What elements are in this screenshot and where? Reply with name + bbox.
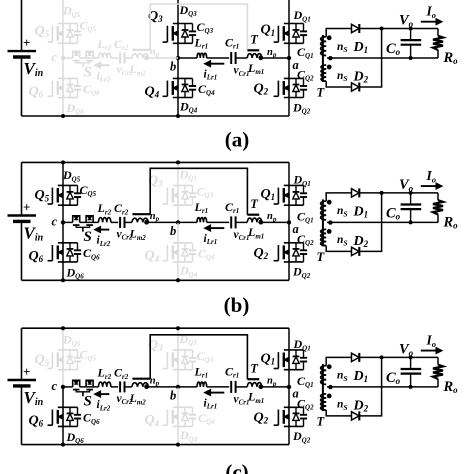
wire Lm2 to node b: [148, 221, 178, 223]
label nS upper: [337, 41, 348, 54]
label Lr2: [97, 37, 112, 52]
switch S (bidirectional): [73, 216, 93, 232]
transformer T1 core: [247, 378, 259, 380]
MOSFET Q6 with body diode DQ6 and capacitor CQ6: [48, 243, 82, 262]
label iLr1: [204, 233, 218, 246]
label DQ4: [179, 428, 198, 443]
label Vo: [399, 13, 414, 29]
diode D2: [352, 247, 360, 256]
capacitor Cr1: [231, 52, 235, 64]
wire left leg upper: [62, 162, 64, 185]
label Q5: [35, 353, 50, 368]
label DQ3: [179, 167, 198, 182]
wire to load: [437, 357, 439, 387]
wire node c to S: [63, 386, 73, 388]
wire S to Lr2: [80, 221, 99, 223]
label + polarity: [23, 364, 30, 379]
label Vo: [399, 342, 414, 358]
MOSFET Q1 with body diode DQ1 and capacitor CQ1: [274, 350, 308, 370]
label Vin: [24, 388, 44, 408]
node a: [287, 220, 291, 224]
MOSFET Q4 with body diode DQ4 and capacitor CQ4: [163, 243, 197, 262]
label Q1: [261, 187, 276, 202]
wire Q3 source to node b: [177, 205, 179, 222]
wire D2 cathode riser: [359, 29, 382, 88]
label DQ5: [62, 168, 81, 183]
label CQ5: [80, 18, 97, 33]
junction bottom rail mid leg: [176, 114, 180, 118]
label Cr2: [114, 37, 129, 52]
node Co bottom: [409, 56, 413, 60]
label S: [84, 229, 92, 245]
wire Lr2 to Cr2: [111, 57, 118, 59]
label T primary: [250, 197, 259, 211]
label DQ1: [293, 337, 311, 352]
label D2: [353, 69, 369, 84]
junction top rail mid leg: [176, 160, 180, 164]
wire Cr1 to T: [236, 221, 248, 223]
label nS upper: [337, 370, 348, 383]
secondary winding nS lower: [321, 394, 332, 411]
label np of T2: [150, 375, 160, 387]
label T primary: [250, 362, 259, 376]
label Io: [426, 333, 437, 349]
wire Lr1 to Cr1: [207, 221, 230, 223]
label iLr2: [97, 70, 111, 83]
label DQ4: [179, 99, 198, 114]
wire node a to Q2: [288, 58, 290, 78]
label caption (a): [225, 127, 250, 151]
label Ro: [443, 379, 459, 395]
resistor Ro: [433, 365, 443, 379]
label Q1: [261, 352, 276, 367]
label CQ2: [297, 232, 314, 247]
capacitor Cr2: [120, 217, 124, 228]
label nS lower: [337, 399, 348, 412]
inductor Lr1: [197, 218, 207, 223]
wire right leg upper: [288, 328, 290, 350]
switch S (bidirectional): [73, 51, 93, 67]
arrow iLr1: [205, 390, 225, 396]
wire right leg upper: [288, 0, 290, 24]
label Q4: [145, 84, 160, 99]
wire top rail: [22, 327, 290, 329]
wire Q1 source to node a: [288, 43, 290, 58]
label Cr1: [225, 200, 239, 215]
label np of T1: [267, 47, 277, 59]
MOSFET Q6 with body diode DQ6 and capacitor CQ6: [48, 407, 82, 426]
node b: [176, 385, 180, 389]
transformer T secondary core: [322, 199, 324, 246]
wire to load: [437, 193, 439, 223]
label Ro: [443, 50, 459, 66]
node Co top: [409, 191, 413, 195]
arrow Io: [421, 348, 442, 354]
wire node c to S: [63, 57, 73, 59]
label Q6: [29, 413, 44, 428]
svg-text:b: b: [170, 60, 176, 74]
wire secondary bottom lead: [326, 410, 352, 416]
label Vo: [399, 177, 414, 193]
wire node c to Q6: [62, 58, 64, 78]
junction bottom rail mid leg: [176, 278, 180, 282]
label b: [170, 60, 176, 74]
label D1: [353, 369, 369, 384]
svg-text:(c): (c): [225, 460, 248, 474]
label S: [84, 394, 92, 410]
secondary winding nS upper: [321, 35, 332, 55]
wire secondary bottom lead: [326, 81, 352, 87]
MOSFET Q5 with body diode DQ5 and capacitor CQ5: [48, 185, 82, 205]
node Co bottom: [409, 220, 413, 224]
label c: [52, 379, 58, 393]
wire Q6 source to bottom rail: [62, 262, 64, 280]
capacitor Co: [401, 357, 422, 387]
MOSFET Q4 with body diode DQ4 and capacitor CQ4: [163, 78, 197, 97]
transformer T1 core: [247, 49, 259, 51]
MOSFET Q1 with body diode DQ1 and capacitor CQ1: [274, 24, 308, 44]
label Q5: [35, 188, 50, 203]
label vCr1: [234, 229, 250, 242]
label b: [170, 389, 176, 403]
label nS upper: [337, 205, 348, 218]
label CQ3: [197, 20, 214, 35]
diode D1: [352, 24, 360, 33]
winding dot np2: [144, 220, 149, 225]
capacitor Cr1: [231, 216, 235, 228]
label Lr1: [194, 36, 209, 51]
svg-text:c: c: [52, 50, 58, 64]
resistor Ro: [433, 36, 443, 50]
wire D1 cathode to output +: [359, 192, 438, 194]
MOSFET Q5 with body diode DQ5 and capacitor CQ5: [48, 350, 82, 370]
label Io: [426, 168, 437, 184]
wire bottom rail: [22, 279, 290, 281]
label nS lower: [337, 234, 348, 247]
inductor Lr1: [197, 382, 207, 387]
secondary winding nS lower: [321, 65, 332, 82]
secondary winding nS lower: [321, 229, 332, 246]
resistor Ro: [433, 200, 443, 214]
svg-text:c: c: [52, 379, 58, 393]
label DQ5: [62, 333, 81, 348]
transformer T1 core: [247, 214, 259, 216]
wire Cr1 to T: [236, 386, 248, 388]
MOSFET Q3 with body diode DQ3 and capacitor CQ3: [163, 185, 197, 205]
label Lm1: [247, 390, 264, 405]
battery Vin: [8, 0, 37, 116]
label CQ3: [197, 349, 214, 364]
wire Cr2 to Lm2: [125, 221, 133, 223]
wire left leg upper: [62, 328, 64, 350]
label vCr1: [234, 65, 250, 78]
svg-text:+: +: [23, 35, 30, 50]
svg-text:T: T: [250, 362, 259, 376]
wire Q3 source to node b: [177, 43, 179, 58]
diode D2: [352, 411, 360, 420]
label DQ2: [292, 100, 311, 115]
arrow iLr2: [95, 62, 110, 68]
svg-text:(a): (a): [225, 127, 250, 151]
inductor Lr2: [99, 218, 111, 223]
wire Lm2 to node b: [148, 386, 178, 388]
label DQ6: [66, 430, 85, 445]
inductor Lm2 primary np: [132, 54, 148, 58]
label S: [84, 65, 92, 81]
label CQ1: [297, 374, 314, 389]
svg-text:T: T: [250, 33, 259, 47]
label Q2: [254, 81, 269, 96]
junction bottom rail mid leg: [176, 443, 180, 447]
inductor Lr2: [99, 382, 111, 387]
label Q3: [148, 9, 163, 24]
svg-text:c: c: [52, 214, 58, 228]
MOSFET Q3 with body diode DQ3 and capacitor CQ3: [163, 24, 197, 44]
wire Q1 source to node a: [288, 370, 290, 387]
arrow iLr2: [95, 227, 110, 233]
wire S to Lr2: [80, 386, 99, 388]
wire node c to Q6: [62, 387, 64, 407]
wire Lm1 to node a: [262, 386, 289, 388]
wire bypass loop: [150, 335, 247, 379]
wire Q6 source to bottom rail: [62, 426, 64, 444]
wire Q5 source to node c: [62, 370, 64, 387]
MOSFET Q4 with body diode DQ4 and capacitor CQ4: [163, 407, 197, 426]
label Ro: [443, 214, 459, 230]
winding dot np1: [258, 384, 263, 389]
wire D2 cathode riser: [359, 193, 382, 252]
label c: [52, 50, 58, 64]
wire Q2 source to bottom rail: [288, 426, 290, 444]
arrow Io: [421, 183, 442, 189]
label a: [293, 222, 299, 236]
label Cr2: [114, 201, 129, 216]
capacitor Cr2: [120, 381, 124, 392]
inductor Lm1 primary np: [247, 218, 261, 222]
label Lr2: [97, 366, 112, 381]
label Q6: [29, 249, 44, 264]
label Lr1: [194, 200, 209, 215]
label Lm2: [129, 227, 147, 242]
winding dot np2: [144, 55, 149, 60]
wire right leg upper: [288, 162, 290, 185]
label DQ6: [66, 265, 85, 280]
wire node b to Lr1: [178, 57, 197, 59]
label DQ1: [293, 173, 311, 188]
node c: [61, 385, 65, 389]
label CQ6: [83, 82, 100, 97]
wire node b to Lr1: [178, 386, 197, 388]
node c: [61, 56, 65, 60]
svg-text:+: +: [23, 364, 30, 379]
label Q3: [148, 173, 163, 188]
label CQ3: [197, 184, 214, 199]
label DQ6: [66, 101, 85, 116]
inductor Lr2: [99, 53, 111, 58]
junction top rail mid leg: [176, 326, 180, 330]
label iLr1: [204, 397, 218, 410]
label caption (c): [225, 460, 248, 474]
wire left leg upper: [62, 0, 64, 24]
junction bottom rail left leg: [61, 114, 65, 118]
diode D2: [352, 83, 360, 92]
node a: [287, 56, 291, 60]
label Cr1: [225, 36, 239, 51]
node Co top: [409, 27, 413, 31]
MOSFET Q5 with body diode DQ5 and capacitor CQ5: [48, 24, 82, 44]
label CQ2: [297, 67, 314, 82]
label Co: [386, 370, 401, 386]
battery Vin: [8, 328, 37, 444]
wire Lm1 to node a: [262, 221, 289, 223]
label D2: [353, 234, 369, 249]
label Q1: [261, 23, 276, 38]
label T secondary: [317, 415, 326, 429]
transformer T secondary core: [322, 35, 324, 82]
label vCr2: [117, 228, 134, 241]
label Vin: [24, 223, 44, 243]
junction bottom rail left leg: [61, 278, 65, 282]
winding dot np1: [258, 55, 263, 60]
label Co: [386, 205, 401, 221]
label a: [293, 58, 299, 72]
label np of T1: [267, 376, 277, 388]
secondary winding nS upper: [321, 364, 332, 384]
label DQ2: [292, 429, 311, 444]
label np of T2: [150, 211, 160, 223]
label nS lower: [337, 70, 348, 83]
MOSFET Q2 with body diode DQ2 and capacitor CQ2: [274, 243, 308, 262]
capacitor Cr1: [231, 381, 235, 393]
MOSFET Q2 with body diode DQ2 and capacitor CQ2: [274, 407, 308, 426]
label Cr1: [225, 364, 239, 379]
node b: [176, 220, 180, 224]
arrow iLr1: [205, 225, 225, 231]
wire Lr2 to Cr2: [111, 386, 118, 388]
label Q6: [29, 84, 44, 99]
wire Lm2 to node b: [148, 57, 178, 59]
label Lr2: [97, 201, 112, 216]
wire node c to S: [63, 221, 73, 223]
wire Q1 source to node a: [288, 205, 290, 222]
label CQ5: [80, 183, 97, 198]
node c: [61, 220, 65, 224]
label Q3: [148, 338, 163, 353]
wire Q2 source to bottom rail: [288, 262, 290, 280]
label CQ5: [80, 347, 97, 362]
node center tap: [328, 56, 332, 60]
inductor Lm2 primary np: [132, 218, 148, 222]
wire node b to Lr1: [178, 221, 197, 223]
inductor Lm1 primary np: [247, 54, 261, 58]
inductor Lr1: [197, 53, 207, 58]
winding dot np1: [258, 220, 263, 225]
MOSFET Q3 with body diode DQ3 and capacitor CQ3: [163, 350, 197, 370]
label CQ6: [83, 411, 100, 426]
wire Lr1 to Cr1: [207, 386, 230, 388]
label + polarity: [23, 35, 30, 50]
svg-text:S: S: [84, 65, 92, 81]
node D1-D2 junction: [380, 191, 384, 195]
wire node a to Q2: [288, 222, 290, 242]
label + polarity: [23, 199, 30, 214]
wire Lm1 to node a: [262, 57, 289, 59]
wire mid leg upper: [177, 162, 179, 185]
label CQ2: [297, 396, 314, 411]
inductor Lm1 primary np: [247, 383, 261, 387]
wire secondary top lead: [326, 29, 352, 37]
label np of T2: [150, 46, 160, 58]
svg-text:S: S: [84, 394, 92, 410]
label DQ2: [292, 265, 311, 280]
node a: [287, 385, 291, 389]
label Q5: [35, 24, 50, 39]
node center tap: [328, 385, 332, 389]
node Co bottom: [409, 385, 413, 389]
label vCr1: [234, 394, 250, 407]
label vCr2: [117, 393, 134, 406]
wire top rail: [22, 161, 290, 163]
svg-text:T: T: [250, 197, 259, 211]
label CQ1: [297, 45, 314, 60]
wire D1 cathode to output +: [359, 356, 438, 358]
junction top rail left leg: [61, 160, 65, 164]
label Q2: [254, 410, 269, 425]
diode D1: [352, 353, 360, 362]
wire Q6 source to bottom rail: [62, 98, 64, 117]
label CQ4: [198, 411, 215, 426]
label Q2: [254, 246, 269, 261]
label DQ5: [62, 4, 81, 19]
label DQ3: [179, 3, 198, 18]
label iLr1: [204, 68, 218, 81]
diode D1: [352, 188, 360, 197]
wire bypass loop: [150, 168, 247, 214]
wire mid leg upper: [177, 0, 179, 24]
junction bottom rail left leg: [61, 443, 65, 447]
label Q4: [145, 413, 160, 428]
wire to load: [437, 29, 439, 59]
node Co top: [409, 355, 413, 359]
node D1-D2 junction: [380, 27, 384, 31]
transformer T2 core: [132, 378, 150, 380]
inductor Lm2 primary np: [132, 383, 148, 387]
label DQ3: [179, 332, 198, 347]
arrow iLr1: [205, 61, 225, 67]
label CQ6: [83, 246, 100, 261]
label T primary: [250, 33, 259, 47]
label caption (b): [224, 293, 250, 317]
wire Q3 source to node b: [177, 370, 179, 387]
wire center tap return: [327, 386, 438, 388]
label CQ1: [297, 209, 314, 224]
label Q4: [145, 249, 160, 264]
wire mid leg upper: [177, 328, 179, 350]
label CQ4: [198, 246, 215, 261]
wire Lr1 to Cr1: [207, 57, 230, 59]
wire node a to Q2: [288, 387, 290, 407]
svg-text:+: +: [23, 199, 30, 214]
label c: [52, 214, 58, 228]
label Lm2: [129, 62, 147, 77]
wire Q4 source to bottom rail: [177, 262, 179, 280]
battery Vin: [8, 162, 37, 280]
transformer T secondary core: [322, 364, 324, 411]
wire Cr1 to T: [236, 57, 248, 59]
label CQ4: [198, 82, 215, 97]
wire Q5 source to node c: [62, 205, 64, 222]
label iLr2: [97, 399, 111, 412]
